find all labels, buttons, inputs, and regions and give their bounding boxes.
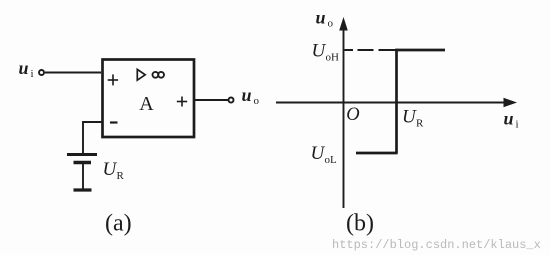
svg-text:oL: oL — [325, 154, 338, 166]
battery UR negative plate — [74, 161, 92, 165]
pin + non-inverting input label — [108, 74, 118, 85]
pin - inverting input label — [110, 121, 118, 123]
svg-text:i: i — [31, 68, 34, 80]
svg-text:U: U — [402, 107, 417, 128]
wire input to op-amp — [45, 72, 101, 74]
wire output — [194, 99, 228, 101]
transfer curve step at U_R — [395, 49, 398, 154]
node uo output terminal — [229, 98, 234, 103]
svg-text:i: i — [516, 119, 519, 131]
label u_o output — [242, 85, 260, 107]
label U_R threshold — [402, 107, 424, 130]
svg-text:U: U — [103, 159, 118, 180]
y-axis u_o — [339, 17, 348, 208]
transfer curve low segment — [356, 152, 398, 155]
wire battery stem — [82, 164, 84, 189]
svg-text:(b): (b) — [346, 211, 374, 237]
wire inverting input to reference — [83, 122, 102, 153]
svg-text:o: o — [254, 95, 260, 107]
svg-text:(a): (a) — [105, 211, 132, 237]
svg-text:u: u — [504, 109, 514, 129]
label u_i input — [19, 58, 34, 80]
transfer curve high segment — [396, 49, 446, 52]
op-amp triangle gain symbol — [137, 69, 145, 80]
label U_R reference — [103, 159, 125, 182]
battery UR positive plate — [67, 153, 97, 156]
op-amp U1 box (comparator A) — [103, 60, 195, 138]
label U_oH — [312, 41, 340, 64]
svg-text:u: u — [19, 58, 29, 78]
svg-text:U: U — [312, 41, 327, 62]
dashed U_oH level line — [345, 49, 397, 51]
svg-text:R: R — [117, 170, 125, 182]
svg-text:oH: oH — [326, 52, 340, 64]
svg-text:u: u — [242, 85, 252, 105]
pin + output polarity label — [177, 97, 187, 107]
svg-text:R: R — [416, 118, 424, 130]
battery UR bottom terminal bar — [74, 188, 92, 191]
svg-text:A: A — [139, 93, 154, 115]
label U_oL — [311, 143, 338, 166]
x-axis u_i — [276, 98, 517, 107]
svg-text:U: U — [311, 143, 326, 164]
label u_o axis — [316, 8, 334, 30]
infinity gain symbol — [153, 72, 165, 78]
svg-text:u: u — [316, 8, 326, 28]
svg-text:https://blog.csdn.net/klaus_x: https://blog.csdn.net/klaus_x — [332, 238, 541, 252]
svg-text:o: o — [328, 18, 334, 30]
label u_i axis — [504, 109, 519, 131]
svg-text:O: O — [346, 105, 359, 125]
node ui input terminal — [39, 70, 44, 75]
